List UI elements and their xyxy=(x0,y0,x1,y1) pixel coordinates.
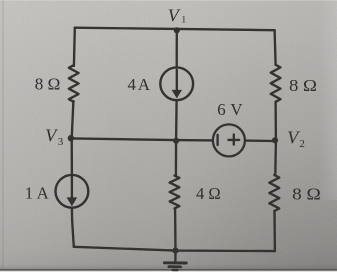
wire middle vertical (4A source to mid rail) xyxy=(175,100,178,175)
wire right middle segment xyxy=(274,102,277,175)
node dot V3 junction xyxy=(68,135,74,141)
wire mid rail right (6V source to V2) xyxy=(245,139,276,142)
resistor R-right-bottom 8ohm xyxy=(269,175,279,211)
resistor R-right-top 8ohm xyxy=(271,65,281,102)
current source I2 4A circle xyxy=(160,67,193,100)
wire left middle segment xyxy=(72,101,74,175)
wire middle vertical lower (4ohm to bottom rail) xyxy=(174,208,177,250)
resistor R-left 8ohm xyxy=(69,65,79,102)
resistor R-mid 4ohm xyxy=(170,176,180,209)
ground stub xyxy=(174,251,176,262)
node dot bottom-center junction xyxy=(172,248,178,254)
voltage source V 6V circle xyxy=(213,124,245,156)
node dot mid-center junction xyxy=(173,138,179,144)
ground bar 3 xyxy=(172,269,177,272)
voltage source plus sign xyxy=(228,135,239,145)
wire top (V1 rail) xyxy=(75,28,275,31)
wire bottom rail xyxy=(74,247,275,251)
wire left lower segment xyxy=(72,208,74,247)
wire right lower segment xyxy=(273,211,276,251)
wire left upper segment xyxy=(73,28,76,66)
current source I2 arrow shaft xyxy=(176,70,178,91)
ground bar 1 xyxy=(164,261,186,264)
node dot V1 xyxy=(174,27,180,33)
node dot V2 junction xyxy=(272,137,278,143)
current source I1 1A circle xyxy=(56,175,89,208)
voltage source minus bar xyxy=(216,135,218,145)
current source I1 arrow shaft xyxy=(71,177,73,198)
wire middle vertical upper (V1 to 4A source) xyxy=(176,30,178,67)
current source I1 arrow head xyxy=(67,197,78,206)
wire right upper segment xyxy=(275,30,276,65)
current source I2 arrow head xyxy=(172,90,182,99)
wire mid rail left (V3 to 6V source) xyxy=(72,138,213,140)
ground bar 2 xyxy=(169,265,181,268)
